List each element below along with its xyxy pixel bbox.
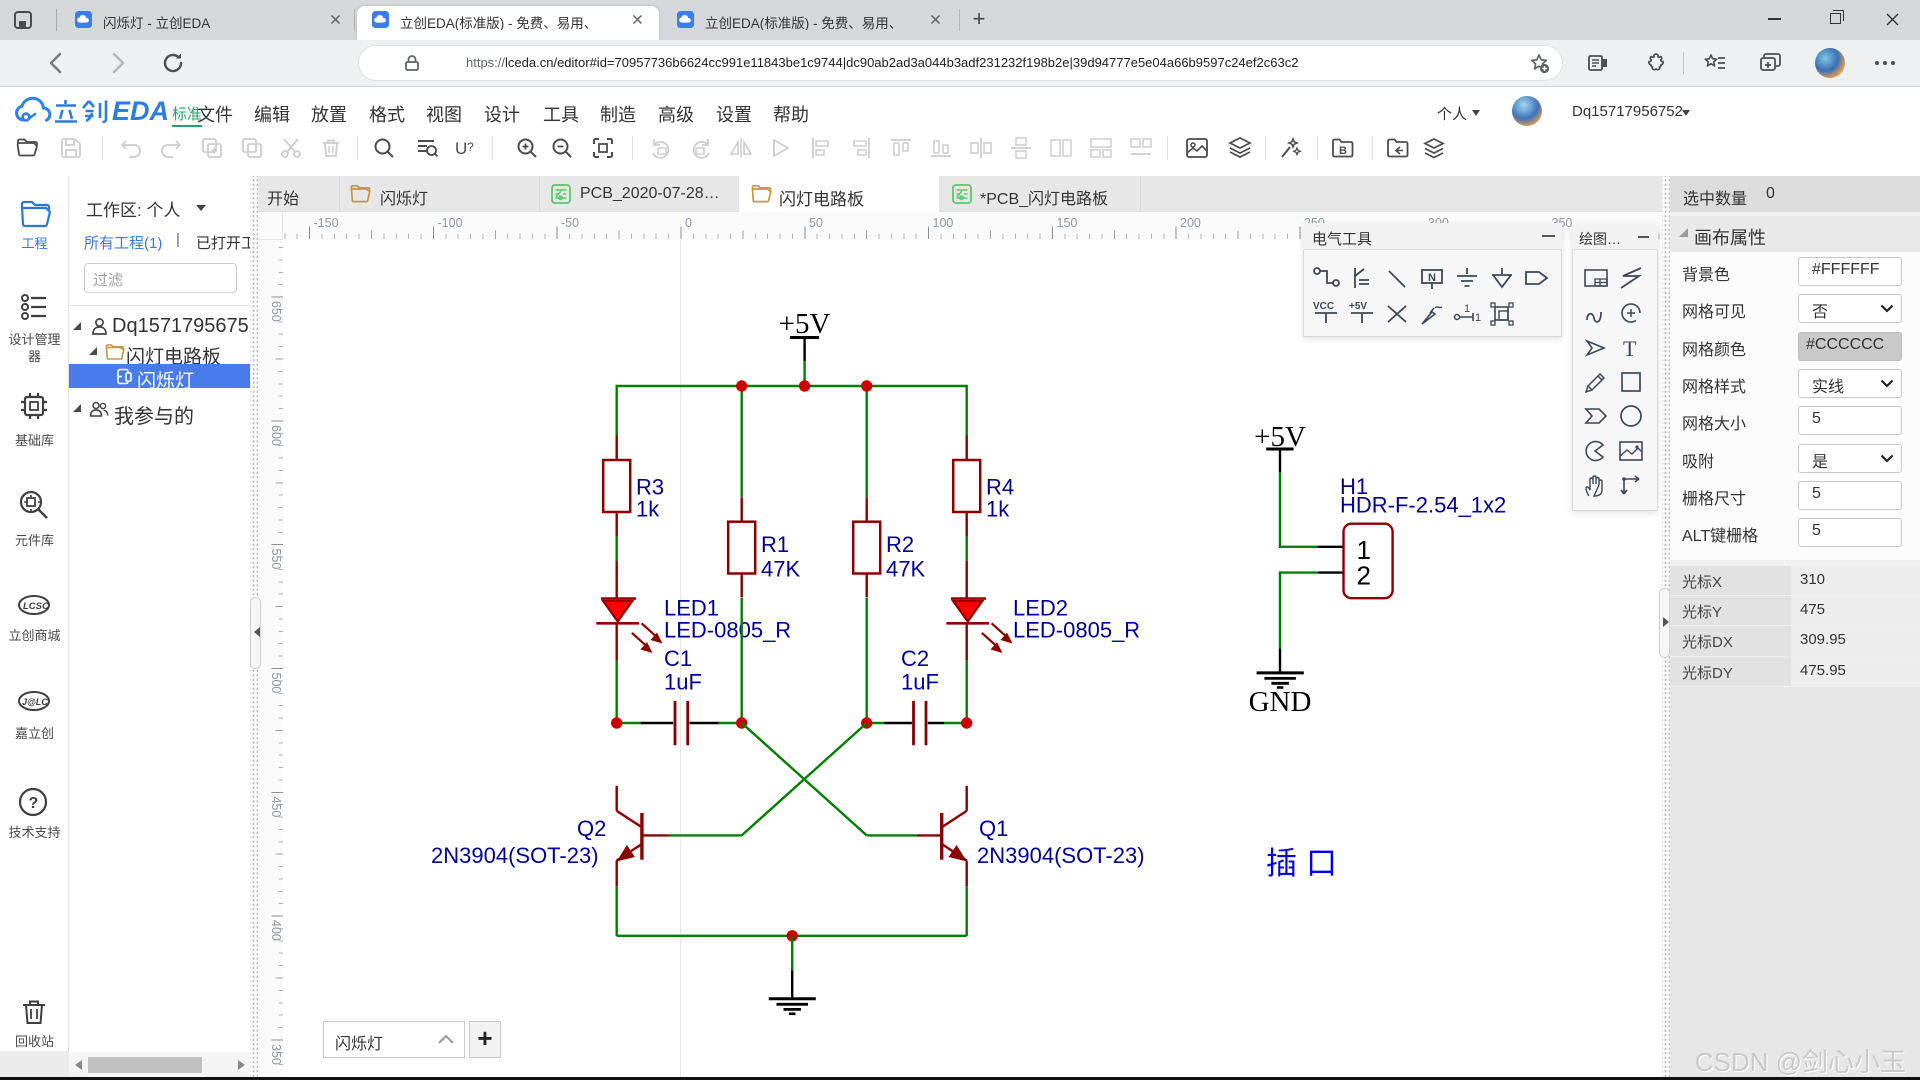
label Q2 part 2N3904(SOT-23) bbox=[431, 843, 599, 868]
ground symbol GND (H1) bbox=[1257, 649, 1304, 688]
label C2 refdes bbox=[901, 646, 929, 671]
wire R1 bottom drop bbox=[741, 598, 743, 724]
drawing tools palette bbox=[1572, 224, 1658, 511]
svg-text:1uF: 1uF bbox=[901, 670, 939, 695]
svg-text:-100: -100 bbox=[438, 216, 463, 230]
label R3 refdes bbox=[636, 475, 664, 500]
LED LED2 bbox=[946, 561, 1012, 661]
svg-text:GND: GND bbox=[1249, 686, 1312, 718]
wire R1 top drop bbox=[741, 386, 743, 497]
label C1 value 1uF bbox=[664, 670, 702, 695]
LED LED1 bbox=[596, 561, 662, 661]
connector H1 HDR-F-2.54_1x2 bbox=[1318, 524, 1393, 599]
svg-text:+5V: +5V bbox=[779, 308, 831, 340]
svg-text:2N3904(SOT-23): 2N3904(SOT-23) bbox=[431, 843, 599, 868]
label LED2 refdes bbox=[1013, 596, 1068, 621]
label R3 value 1k bbox=[636, 497, 660, 522]
svg-text:U: U bbox=[455, 139, 467, 158]
wire bottom rail bbox=[617, 935, 967, 937]
label R2 refdes bbox=[886, 532, 914, 557]
wire +5V to H1 pin1 bbox=[1279, 472, 1318, 548]
svg-text:N: N bbox=[1428, 272, 1436, 284]
electrical tools palette bbox=[1303, 223, 1562, 337]
junction node top-left bbox=[736, 380, 747, 391]
transistor Q1 2N3904 bbox=[917, 786, 967, 886]
label R4 value 1k bbox=[986, 497, 1010, 522]
wire C1 to R1 node bbox=[719, 722, 742, 724]
label LED1 footprint LED-0805_R bbox=[664, 618, 791, 643]
junction node top-center bbox=[799, 380, 810, 391]
junction node top-right bbox=[861, 380, 872, 391]
wire C2 to LED2 bbox=[944, 722, 967, 724]
wire Q1 emitter down bbox=[966, 886, 968, 936]
window controls bbox=[1768, 18, 1781, 20]
wire cross R2 to Q2 base bbox=[742, 723, 867, 835]
svg-text:2N3904(SOT-23): 2N3904(SOT-23) bbox=[977, 843, 1145, 868]
wire LED2 cathode down bbox=[966, 661, 968, 725]
svg-text:T: T bbox=[1623, 336, 1637, 361]
junction node R2 bottom bbox=[861, 717, 872, 728]
bottom taskbar edge bbox=[0, 1077, 1920, 1080]
ground symbol (main) bbox=[769, 971, 816, 1014]
wire LED1 cathode down bbox=[616, 661, 618, 725]
wire R2 bottom drop bbox=[866, 598, 868, 724]
toolbar bbox=[15, 135, 41, 161]
resistor R2 47K bbox=[853, 497, 880, 597]
label R4 refdes bbox=[986, 475, 1014, 500]
power +5V flag (main rail) bbox=[779, 308, 831, 361]
svg-text:LCSC: LCSC bbox=[23, 601, 49, 612]
capacitor C2 1uF bbox=[885, 701, 945, 745]
wire top rail bbox=[617, 385, 967, 387]
resistor R3 1k bbox=[603, 436, 630, 537]
svg-text:B: B bbox=[1339, 145, 1347, 157]
wire H1 pin2 to ground bbox=[1279, 573, 1318, 649]
label C2 value 1uF bbox=[901, 670, 939, 695]
active tab bbox=[357, 6, 659, 40]
label R1 refdes bbox=[761, 532, 789, 557]
svg-text:-50: -50 bbox=[561, 216, 579, 230]
label H1 footprint HDR-F-2.54_1x2 bbox=[1340, 492, 1506, 517]
svg-text:1uF: 1uF bbox=[664, 670, 702, 695]
splitters bbox=[250, 176, 258, 1077]
junction node C1 left bbox=[611, 717, 622, 728]
svg-text:?: ? bbox=[29, 795, 39, 812]
svg-text:47K: 47K bbox=[886, 557, 925, 582]
wire R3 to LED1 bbox=[616, 536, 618, 561]
wire cross R1 to Q1 base bbox=[742, 723, 867, 835]
wire R4 to LED2 bbox=[966, 536, 968, 561]
wire Q1 base bbox=[867, 834, 917, 836]
label LED2 footprint LED-0805_R bbox=[1013, 618, 1140, 643]
transistor Q2 2N3904 bbox=[617, 786, 669, 886]
junction node ground bbox=[787, 930, 798, 941]
resistor R1 47K bbox=[728, 497, 755, 597]
svg-text:200: 200 bbox=[1180, 216, 1201, 230]
svg-text:R1: R1 bbox=[761, 532, 789, 557]
svg-text:100: 100 bbox=[933, 216, 954, 230]
address row bbox=[0, 40, 1920, 87]
junction node R1 bottom bbox=[736, 717, 747, 728]
wire R2 top drop bbox=[866, 386, 868, 497]
svg-text:-150: -150 bbox=[314, 216, 339, 230]
left sidebar bbox=[0, 176, 69, 1077]
svg-text:1: 1 bbox=[1464, 303, 1470, 315]
svg-text:+5V: +5V bbox=[1349, 301, 1367, 312]
capacitor C1 1uF bbox=[641, 701, 719, 745]
label R1 value 47K bbox=[761, 557, 800, 582]
svg-text:VCC: VCC bbox=[1313, 301, 1334, 312]
svg-text:Q1: Q1 bbox=[979, 816, 1008, 841]
svg-text:C2: C2 bbox=[901, 646, 929, 671]
wire Q2 base bbox=[669, 834, 742, 836]
junction node C2 right bbox=[961, 717, 972, 728]
wire R2 node to C2 bbox=[867, 722, 885, 724]
svg-text:Q2: Q2 bbox=[577, 816, 606, 841]
label LED1 refdes bbox=[664, 596, 719, 621]
wire +5V stem bbox=[803, 361, 805, 386]
wire top rail drop left bbox=[616, 385, 618, 436]
label Q1 part 2N3904(SOT-23) bbox=[977, 843, 1145, 868]
svg-text:47K: 47K bbox=[761, 557, 800, 582]
svg-text:R2: R2 bbox=[886, 532, 914, 557]
right properties panel bbox=[1670, 176, 1920, 1077]
label Q2 refdes bbox=[577, 816, 606, 841]
doc tab bar bbox=[258, 176, 1662, 212]
svg-text:1: 1 bbox=[1475, 312, 1481, 324]
sheet selector bbox=[323, 1021, 465, 1058]
svg-text:1k: 1k bbox=[986, 497, 1010, 522]
svg-text:2: 2 bbox=[1357, 561, 1371, 591]
svg-text:?: ? bbox=[467, 140, 474, 154]
svg-text:插口: 插口 bbox=[1266, 846, 1346, 881]
label H1 refdes bbox=[1340, 474, 1368, 499]
label Q1 refdes bbox=[979, 816, 1008, 841]
resistor R4 1k bbox=[953, 436, 980, 537]
wire ground stem bbox=[791, 936, 793, 971]
svg-text:150: 150 bbox=[1057, 216, 1078, 230]
pin number 1 bbox=[1357, 535, 1371, 565]
label GND net bbox=[1249, 686, 1312, 718]
wire Q2 emitter down bbox=[616, 886, 618, 936]
power +5V flag (H1) bbox=[1254, 421, 1306, 472]
rulers bbox=[258, 212, 283, 240]
svg-text:50: 50 bbox=[809, 216, 823, 230]
wire top rail drop right bbox=[966, 385, 968, 436]
pin number 2 bbox=[1357, 561, 1371, 591]
left project panel bbox=[69, 176, 250, 1077]
svg-text:0: 0 bbox=[685, 216, 692, 230]
svg-text:HDR-F-2.54_1x2: HDR-F-2.54_1x2 bbox=[1340, 492, 1506, 517]
text annotation 插口 bbox=[1266, 846, 1346, 881]
svg-text:J@LC: J@LC bbox=[22, 697, 48, 707]
svg-text:LED-0805_R: LED-0805_R bbox=[664, 618, 791, 643]
svg-text:LED-0805_R: LED-0805_R bbox=[1013, 618, 1140, 643]
label R2 value 47K bbox=[886, 557, 925, 582]
svg-text:C1: C1 bbox=[664, 646, 692, 671]
svg-text:1k: 1k bbox=[636, 497, 660, 522]
wire LED1 to C1 bbox=[617, 722, 641, 724]
label C1 refdes bbox=[664, 646, 692, 671]
